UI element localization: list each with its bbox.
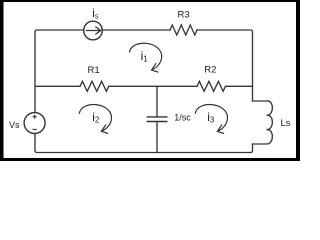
loop arrow i1: [129, 43, 161, 72]
inductor Ls: [253, 101, 273, 144]
loop arrow i3: [195, 105, 227, 134]
svg-text:Ls: Ls: [281, 118, 291, 129]
current source Is: [84, 21, 103, 40]
wire top-mid: [102, 29, 170, 31]
resistor R2: [197, 81, 226, 91]
wire top-right + right rail upper: [197, 30, 253, 101]
svg-text:R1: R1: [88, 65, 100, 76]
svg-text:Vs: Vs: [9, 120, 20, 130]
svg-text:R3: R3: [178, 10, 190, 21]
wire middle-left: [35, 85, 80, 87]
voltage source Vs: [24, 113, 45, 134]
wire middle-right: [226, 85, 253, 87]
wire capacitor branch upper: [156, 86, 158, 116]
wire left rail lower + bottom + right rail lower: [35, 134, 253, 153]
wire middle-mid: [109, 85, 197, 87]
capacitor C plates: [147, 117, 168, 122]
wire top-left + left rail upper: [35, 30, 84, 113]
svg-text:R2: R2: [204, 65, 216, 76]
resistor R1: [80, 81, 109, 91]
svg-text:1/sc: 1/sc: [174, 113, 191, 123]
loop arrow i2: [79, 105, 111, 134]
resistor R3: [170, 25, 197, 35]
wire capacitor branch lower: [156, 122, 158, 153]
